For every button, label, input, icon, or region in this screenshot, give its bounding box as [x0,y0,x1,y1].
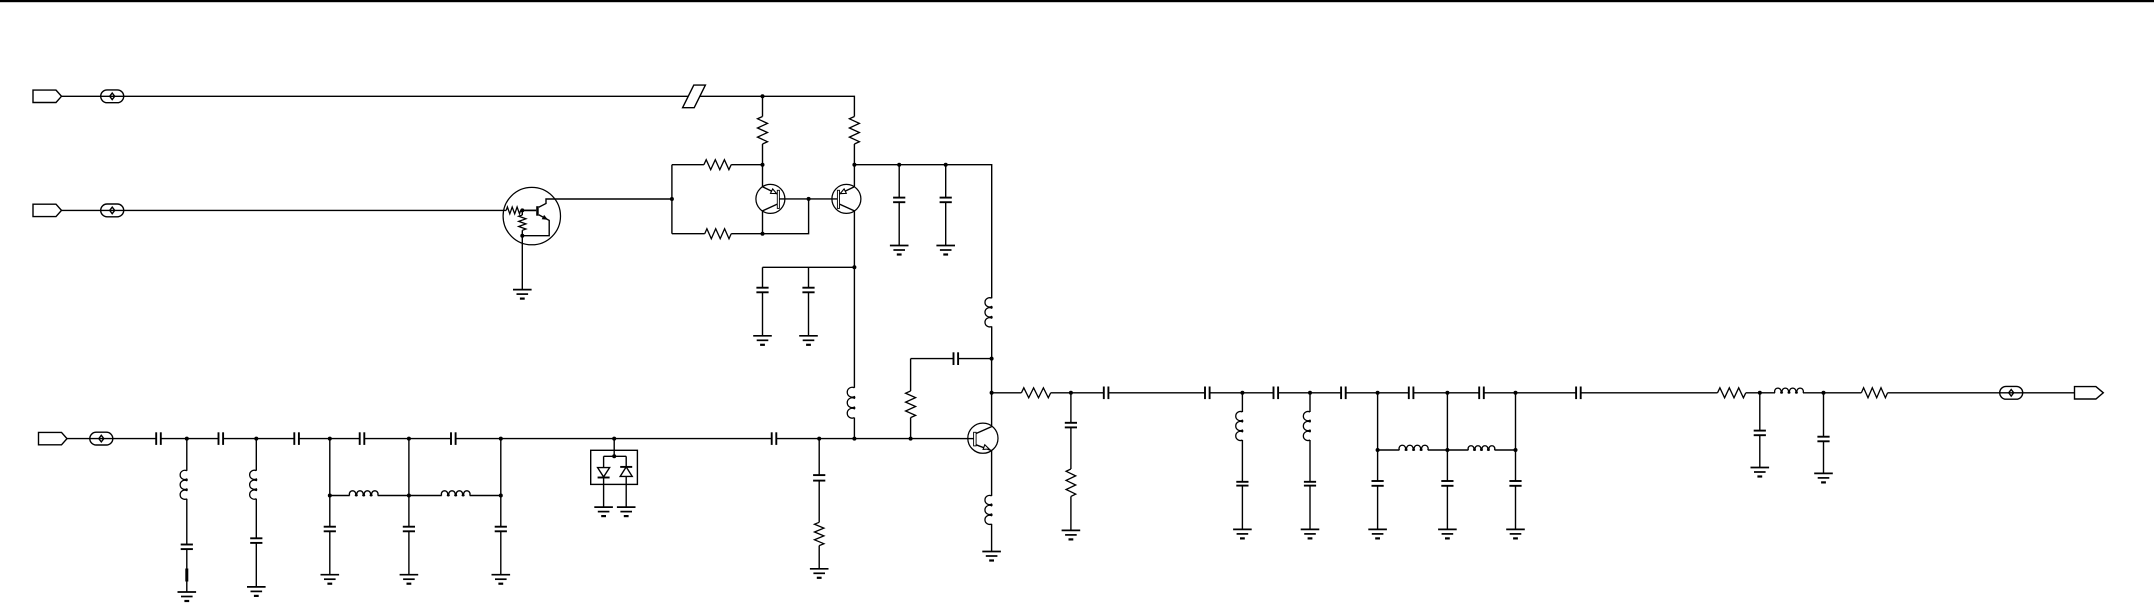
wire [1581,392,1718,394]
wire [408,439,410,496]
transistor Q2 [756,184,809,213]
wire [763,266,855,268]
wire [1484,392,1576,394]
wire [161,438,219,440]
wire [613,439,615,457]
wire [223,438,294,440]
junction [499,494,503,498]
capacitor C2 [940,165,952,246]
junction [1376,391,1380,395]
junction [990,357,994,361]
capacitor C20 [1205,387,1210,400]
junction [852,265,856,269]
capacitor C29 [1441,450,1453,529]
capacitor C17 [813,439,825,523]
ground [982,552,1001,561]
junction [1445,448,1449,452]
wire [1108,392,1205,394]
capacitor C22 [1341,387,1346,400]
capacitor C9 [360,432,365,445]
wire [1377,393,1379,450]
microstrip line TL1 [185,569,188,582]
junction [909,437,913,441]
wire [500,439,502,496]
wire [299,438,360,440]
ground [799,336,818,345]
transistor Q4 [960,423,998,453]
ground [1368,529,1387,538]
capacitor C4 [802,267,814,336]
inductor L4 [180,470,187,544]
inductor L10 [1378,445,1448,450]
junction [1240,391,1244,395]
wire [67,438,156,440]
wire [1446,393,1448,450]
junction [807,197,811,201]
junction [328,494,332,498]
junction [1758,391,1762,395]
junction [1514,448,1518,452]
resistor R6 [815,522,824,569]
wire [186,582,188,593]
wire [853,211,855,267]
inductor L1 [847,387,855,438]
wire [776,438,960,440]
junction [1514,391,1518,395]
capacitor C14 [324,496,336,575]
junction [499,437,503,441]
wire [364,438,451,440]
capacitor C25 [1576,387,1581,400]
junction [990,391,994,395]
resistor R10 [1861,388,2074,398]
junction [1445,391,1449,395]
wire [1278,392,1341,394]
current probe IP1 [101,90,124,103]
capacitor C15 [403,496,415,575]
wire [560,198,672,200]
junction [407,494,411,498]
capacitor C3 [756,267,768,336]
ground [400,575,419,584]
current probe IP3 [90,432,113,445]
junction [1822,391,1826,395]
capacitor C27 [1304,482,1316,530]
top border bar [0,0,2154,2]
ground [178,592,197,601]
capacitor C26 [1236,482,1248,530]
capacitor C6 [156,432,161,445]
capacitor C30 [1509,450,1521,529]
capacitor C32 [1817,393,1829,474]
ground [936,246,955,255]
capacitor C5 [911,352,992,365]
ground [810,569,829,578]
port P2 [33,204,62,216]
capacitor C18 [1065,393,1077,469]
wire [853,165,855,187]
transistor Q1 (packaged) [503,187,560,289]
junction [761,94,765,98]
wire [1346,392,1409,394]
junction [897,163,901,167]
resistor R7 [992,388,1071,398]
wire [62,209,507,211]
ground [1062,530,1081,539]
ground [1814,473,1833,482]
resistor R2 [849,117,859,165]
wire [991,359,993,427]
junction [852,163,856,167]
port P4 [2075,387,2104,399]
wire [456,438,772,440]
current probe IP4 [2000,386,2023,399]
capacitor C31 [1754,393,1766,468]
junction [761,232,765,236]
diode pair D1 (ESD clamp) [591,450,638,507]
inductor L7 [409,491,501,496]
wire [762,211,764,234]
transistor Q3 [809,184,861,213]
ground [1506,529,1525,538]
ground [513,290,532,299]
inductor L8 [1236,393,1243,482]
inductor L3 [985,495,992,551]
capacitor C8 [294,432,299,445]
junction [328,437,332,441]
resistor R3 [672,160,763,170]
wire [762,165,764,187]
ground [1233,529,1252,538]
capacitor C1 [893,165,905,246]
junction [670,197,674,201]
resistor R4 [672,229,763,239]
inductor L12 [1775,388,1862,393]
junction [761,163,765,167]
junction [944,163,948,167]
inductor L11 [1447,446,1515,451]
junction [254,437,258,441]
jumper slash [683,85,706,108]
capacitor C7 [219,432,224,445]
wire [62,96,855,116]
capacitor C12 [181,545,193,569]
wire [854,165,991,299]
junction [1376,448,1380,452]
current probe IP2 [101,204,124,217]
ground [321,575,340,584]
ground [617,507,636,516]
junction [852,437,856,441]
wire [1071,392,1104,394]
port P1 [33,90,62,102]
wire [763,199,809,234]
inductor L9 [1303,393,1310,482]
junction [1069,391,1073,395]
resistor R9 [1718,388,1776,398]
ground [1751,468,1770,477]
port P3 [39,432,68,444]
capacitor C16 [495,496,507,575]
inductor L2 [985,298,992,359]
ground [753,336,772,345]
ground [492,575,511,584]
capacitor C28 [1372,450,1384,529]
junction [1308,391,1312,395]
capacitor C19 [1104,387,1109,400]
wire [991,451,993,496]
ground [594,507,613,516]
ground [890,246,909,255]
wire [671,165,673,234]
resistor R5 [906,359,916,439]
resistor R1 [758,96,768,164]
junction [817,437,821,441]
inductor L6 [330,491,409,496]
capacitor C23 [1409,387,1414,400]
inductor L5 [250,470,257,538]
ground [1301,529,1320,538]
capacitor C24 [1479,387,1484,400]
wire [186,439,188,471]
wire [1515,393,1517,450]
junction [185,437,189,441]
ground [1438,529,1457,538]
capacitor C10 [451,432,456,445]
wire [853,267,855,388]
wire [1413,392,1479,394]
ground [247,587,266,596]
wire [255,439,257,471]
capacitor C13 [250,538,262,587]
resistor R8 [1066,469,1076,530]
junction [407,437,411,441]
wire [1210,392,1274,394]
capacitor C21 [1274,387,1279,400]
capacitor C11 [772,432,777,445]
wire [329,439,331,496]
junction [612,437,616,441]
